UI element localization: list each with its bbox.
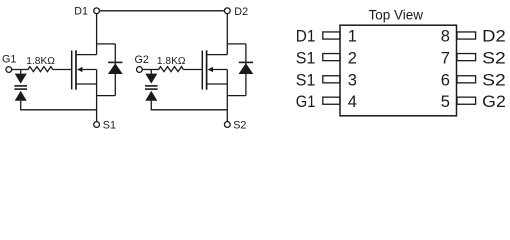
pin 6 stub	[457, 76, 476, 83]
wire G1 to resistor	[12, 69, 29, 71]
transistor Q2 drain stub	[207, 54, 228, 56]
svg-text:G2: G2	[482, 93, 506, 111]
body diode D2 triangle	[239, 63, 254, 74]
wire zener Z2 to source rail	[151, 101, 227, 110]
svg-text:1.8KΩ: 1.8KΩ	[26, 56, 55, 67]
svg-text:D1: D1	[74, 6, 88, 18]
terminal G2	[137, 67, 143, 73]
zener Z2 lower diode triangle	[145, 91, 157, 101]
transistor Q1 drain stub	[76, 54, 97, 56]
terminal S2	[224, 122, 230, 128]
svg-text:5: 5	[441, 93, 450, 111]
svg-text:1.8KΩ: 1.8KΩ	[157, 56, 186, 67]
zener Z2 cathode bar upper	[145, 85, 158, 87]
wire G2 to resistor	[143, 69, 160, 71]
svg-text:S1: S1	[103, 120, 116, 130]
body diode D2 branch top wire	[227, 43, 246, 45]
pin 5 stub	[457, 97, 476, 104]
zener Z2 upper diode triangle	[145, 74, 157, 84]
svg-text:S1: S1	[296, 49, 316, 67]
svg-text:G1: G1	[2, 53, 16, 65]
svg-text:G2: G2	[135, 54, 149, 66]
resistor R2 1.8KΩ	[159, 67, 184, 72]
wire gate junction to zener Z1	[20, 70, 22, 74]
wire source rail Q2	[226, 70, 228, 125]
svg-text:D2: D2	[234, 6, 248, 18]
zener Z2 cathode bar lower	[145, 88, 158, 90]
body diode D2 cathode bar	[239, 61, 253, 63]
zener Z1 lower diode triangle	[15, 91, 27, 101]
svg-text:S2: S2	[482, 49, 506, 67]
svg-text:Top View: Top View	[369, 8, 424, 23]
transistor Q2 gate bar	[201, 51, 203, 90]
transistor Q2 source stub	[207, 83, 228, 85]
transistor Q1 channel bar	[75, 50, 77, 89]
svg-text:4: 4	[348, 93, 357, 111]
svg-text:2: 2	[348, 49, 357, 67]
body diode D2 branch bottom wire	[227, 95, 246, 97]
transistor Q1 gate bar	[71, 51, 73, 90]
body diode D1 triangle	[108, 63, 123, 74]
terminal D1	[94, 8, 100, 14]
svg-text:D1: D1	[296, 28, 316, 46]
wire resistor to gate Q1	[53, 69, 72, 71]
svg-text:7: 7	[441, 49, 450, 67]
terminal S1	[94, 122, 100, 128]
svg-text:D2: D2	[482, 28, 506, 46]
wire source rail Q1	[96, 70, 98, 125]
body diode D1 cathode bar	[108, 61, 122, 63]
pin 4 stub	[323, 97, 340, 104]
svg-text:S2: S2	[233, 120, 246, 130]
wire zener Z1 to source rail	[21, 101, 97, 110]
svg-text:3: 3	[348, 71, 357, 89]
resistor R1 1.8KΩ	[28, 67, 53, 72]
wire gate junction to zener Z2	[150, 70, 152, 74]
transistor Q2 channel bar	[206, 50, 208, 89]
pin 7 stub	[457, 54, 476, 61]
wire drain riser Q2	[226, 11, 228, 55]
transistor Q2 body arrow stub	[211, 69, 227, 71]
body diode D2 vertical wire	[245, 44, 247, 96]
pin 2 stub	[323, 54, 340, 61]
body diode D1 branch bottom wire	[97, 95, 116, 97]
terminal D2	[224, 8, 230, 14]
pin 1 stub	[323, 32, 340, 39]
zener Z1 upper diode triangle	[15, 74, 27, 84]
wire resistor to gate Q2	[183, 69, 202, 71]
pin 3 stub	[323, 76, 340, 83]
wire drain riser Q1	[96, 11, 98, 55]
transistor Q1 source stub	[76, 83, 97, 85]
package body SOIC-8	[340, 25, 457, 116]
wire top rail D1-D2	[97, 10, 228, 12]
svg-text:G1: G1	[296, 93, 316, 111]
terminal G1	[6, 67, 12, 73]
svg-text:8: 8	[441, 28, 450, 46]
svg-text:1: 1	[348, 28, 357, 46]
transistor Q1 body arrow stub	[81, 69, 97, 71]
svg-text:S1: S1	[296, 71, 316, 89]
svg-text:S2: S2	[482, 71, 506, 89]
zener Z1 cathode bar lower	[14, 88, 27, 90]
zener Z1 cathode bar upper	[14, 85, 27, 87]
svg-text:6: 6	[441, 71, 450, 89]
body diode D1 vertical wire	[114, 44, 116, 96]
pin 8 stub	[457, 32, 476, 39]
body diode D1 branch top wire	[97, 43, 116, 45]
